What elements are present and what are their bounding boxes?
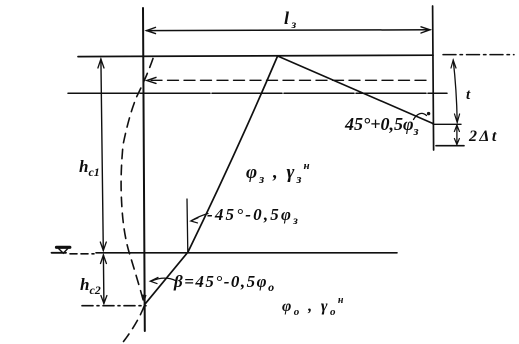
svg-text:hс1: hс1 — [79, 157, 100, 179]
svg-text:φз , γзн: φз , γзн — [246, 160, 312, 186]
svg-text:hс2: hс2 — [80, 275, 101, 297]
svg-text:φо , γон: φо , γон — [282, 295, 346, 318]
svg-text:2Δt: 2Δt — [468, 128, 499, 145]
svg-text:lз: lз — [284, 8, 298, 31]
svg-text:45°+0,5φз: 45°+0,5φз — [344, 114, 419, 138]
svg-text:β=45°-0,5φо: β=45°-0,5φо — [173, 272, 276, 294]
svg-text:-45°-0,5φз: -45°-0,5φз — [207, 205, 300, 227]
svg-text:t: t — [466, 87, 471, 103]
